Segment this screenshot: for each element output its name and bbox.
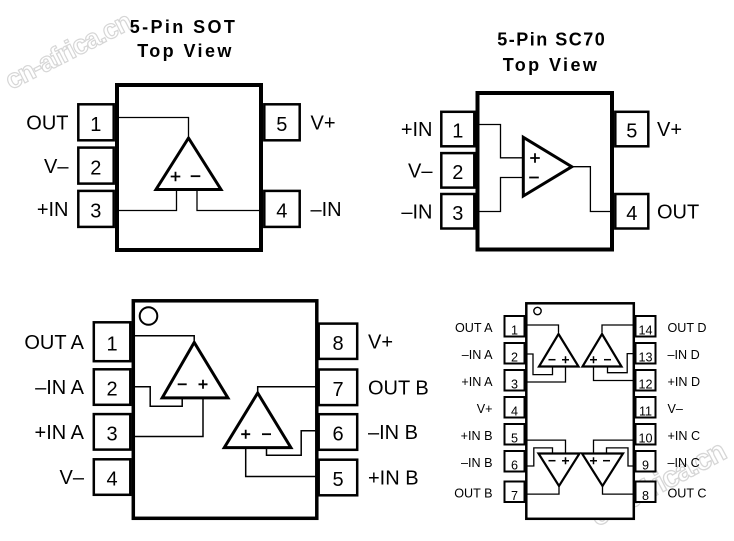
wire pin14 to op-amp D apex (14-pin): [602, 325, 634, 333]
pin 1 number (8-pin): [106, 333, 117, 355]
label +IN pin3 (SOT): [37, 199, 69, 221]
svg-text:OUT: OUT: [657, 201, 699, 223]
pin 5 box (14-pin): [505, 424, 525, 445]
svg-text:OUT B: OUT B: [368, 378, 429, 400]
op-amp B triangle (14-pin): [539, 454, 580, 487]
wire pin1 to plus input (SC70): [478, 125, 524, 158]
pin 7 number (14-pin): [511, 489, 518, 503]
wire pin6 to op-amp B minus input (8-pin): [267, 431, 317, 455]
label +IN C pin10 (14-pin): [668, 429, 701, 443]
op-amp A triangle (8-pin): [162, 342, 228, 398]
pin 8 box (8-pin): [319, 324, 358, 359]
pin 5 number (SC70): [626, 121, 637, 143]
plus sign inside op-amp (SC70): [530, 153, 540, 163]
svg-text:–IN B: –IN B: [461, 456, 493, 470]
svg-text:4: 4: [626, 203, 637, 225]
pin-1 indicator circle (14-pin): [534, 307, 541, 314]
pin 8 number (8-pin): [332, 333, 343, 355]
svg-text:14: 14: [638, 323, 652, 337]
pin 9 number (14-pin): [642, 458, 649, 472]
label V- pin2 (SC70): [408, 161, 433, 183]
svg-text:+IN D: +IN D: [668, 375, 701, 389]
pin 3 number (14-pin): [511, 377, 518, 391]
plus sign op-amp B (14-pin): [562, 457, 569, 464]
pin-1 indicator circle (8-pin): [140, 307, 158, 325]
label -IN pin3 (SC70): [401, 201, 432, 223]
label V+ pin8 (8-pin): [368, 331, 393, 353]
pin 3 box (8-pin): [94, 414, 131, 450]
minus sign op-amp D (14-pin): [604, 359, 611, 361]
wire pin3 to op-amp A plus input (8-pin): [133, 398, 203, 437]
pin 1 box (SC70): [441, 112, 474, 147]
pin 2 box (SOT): [78, 148, 113, 184]
pin 4 number (SOT): [276, 201, 287, 223]
svg-text:OUT B: OUT B: [454, 487, 492, 501]
minus sign inside op-amp (SC70): [529, 177, 539, 179]
svg-text:+IN A: +IN A: [461, 375, 493, 389]
pin 14 box (14-pin): [636, 316, 656, 337]
pin 2 number (SOT): [90, 157, 101, 179]
wire pin6 to op-amp B minus input (14-pin): [526, 448, 552, 466]
svg-text:13: 13: [638, 350, 652, 364]
wire pin1 to op-amp apex (SOT): [117, 118, 189, 137]
wire pin5 to op-amp B plus input (8-pin): [246, 448, 317, 477]
title 5-Pin SC70: [497, 30, 606, 76]
pin 2 number (SC70): [452, 162, 463, 184]
label OUT A pin1 (8-pin): [24, 332, 84, 354]
pin 6 box (8-pin): [319, 414, 358, 450]
svg-text:OUT: OUT: [26, 113, 68, 135]
svg-text:3: 3: [106, 424, 117, 446]
pin 7 box (8-pin): [319, 370, 358, 406]
pin 2 number (14-pin): [511, 350, 518, 364]
pin 10 number (14-pin): [638, 431, 652, 445]
label +IN B pin5 (8-pin): [368, 468, 419, 490]
svg-text:+IN B: +IN B: [368, 468, 419, 490]
svg-text:–IN: –IN: [311, 199, 342, 221]
label -IN D pin13 (14-pin): [668, 348, 700, 362]
svg-text:5-Pin SOT: 5-Pin SOT: [130, 17, 238, 37]
svg-text:8: 8: [332, 333, 343, 355]
label -IN A pin2 (14-pin): [462, 348, 493, 362]
pin 5 number (SOT): [276, 114, 287, 136]
minus sign op-amp B (8-pin): [262, 433, 271, 435]
svg-text:+IN: +IN: [37, 199, 69, 221]
svg-text:V+: V+: [368, 331, 393, 353]
svg-text:1: 1: [106, 333, 117, 355]
pin 5 box (SOT): [264, 104, 299, 140]
plus sign op-amp C (14-pin): [590, 457, 597, 464]
plus sign inside op-amp (SOT): [171, 172, 181, 182]
svg-text:–IN A: –IN A: [35, 377, 85, 399]
svg-text:3: 3: [511, 377, 518, 391]
label -IN pin4 (SOT): [311, 199, 342, 221]
svg-text:V–: V–: [60, 467, 85, 489]
label OUT B pin7 (14-pin): [454, 487, 492, 501]
pin 12 number (14-pin): [638, 377, 652, 391]
wire pin1 to op-amp A apex (14-pin): [526, 325, 558, 333]
wire pin13 to op-amp D minus input (14-pin): [608, 354, 634, 373]
pin 3 number (SOT): [90, 201, 101, 223]
pin 3 box (14-pin): [505, 370, 525, 391]
pin 4 box (14-pin): [505, 397, 525, 418]
svg-text:3: 3: [90, 201, 101, 223]
label -IN C pin9 (14-pin): [668, 456, 700, 470]
op-amp C triangle (14-pin): [582, 454, 623, 487]
label V+ pin4 (14-pin): [477, 402, 493, 416]
minus sign op-amp C (14-pin): [603, 460, 610, 462]
svg-text:5: 5: [276, 114, 287, 136]
svg-text:4: 4: [511, 404, 518, 418]
op-amp B triangle (8-pin): [224, 393, 291, 448]
pin 7 number (8-pin): [332, 379, 343, 401]
svg-text:OUT D: OUT D: [668, 321, 707, 335]
label OUT C pin8 (14-pin): [668, 487, 707, 501]
minus sign op-amp B (14-pin): [549, 460, 556, 462]
pin 2 box (14-pin): [505, 343, 525, 364]
svg-text:10: 10: [638, 431, 652, 445]
svg-text:2: 2: [511, 350, 518, 364]
wire op-amp B apex to pin7 (8-pin): [258, 387, 317, 393]
pin 9 box (14-pin): [636, 451, 656, 472]
svg-text:2: 2: [452, 162, 463, 184]
svg-text:–IN B: –IN B: [368, 422, 418, 444]
op-amp triangle (SC70): [523, 137, 572, 196]
pin 1 box (SOT): [78, 104, 113, 140]
pin 2 number (8-pin): [106, 379, 117, 401]
pin 4 number (SC70): [626, 203, 637, 225]
svg-text:1: 1: [511, 323, 518, 337]
label OUT pin4 (SC70): [657, 201, 699, 223]
pin 3 box (SOT): [78, 191, 113, 227]
IC body 5-Pin SC70: [478, 93, 613, 250]
pin 1 box (8-pin): [94, 322, 131, 361]
svg-text:+IN C: +IN C: [668, 429, 701, 443]
pin 3 box (SC70): [441, 194, 474, 229]
minus sign op-amp A (14-pin): [549, 359, 556, 361]
label OUT B pin7 (8-pin): [368, 378, 429, 400]
wire pin2 to op-amp A minus input (8-pin): [133, 387, 182, 407]
minus sign op-amp A (8-pin): [178, 383, 187, 385]
minus sign inside op-amp (SOT): [191, 175, 201, 177]
pin 1 number (14-pin): [511, 323, 518, 337]
pin 3 number (SC70): [452, 203, 463, 225]
label +IN B pin5 (14-pin): [461, 429, 493, 443]
label V- pin4 (8-pin): [60, 467, 85, 489]
pin 2 box (8-pin): [94, 369, 131, 405]
svg-text:Top View: Top View: [137, 41, 234, 61]
svg-text:–IN A: –IN A: [462, 348, 493, 362]
label V- pin11 (14-pin): [668, 402, 683, 416]
wire pin10 to op-amp C plus input (14-pin): [594, 440, 634, 453]
svg-text:OUT C: OUT C: [668, 487, 707, 501]
svg-text:9: 9: [642, 458, 649, 472]
wire pin3 to op-amp A plus input (14-pin): [526, 367, 565, 383]
wire pin1 to op-amp A apex (8-pin): [133, 336, 194, 341]
pin 14 number (14-pin): [638, 323, 652, 337]
label V+ pin5 (SOT): [311, 113, 336, 135]
svg-text:V–: V–: [44, 156, 69, 178]
pin 1 box (14-pin): [505, 316, 525, 337]
wire op-amp C apex to pin8 (14-pin): [603, 486, 634, 494]
svg-text:2: 2: [106, 379, 117, 401]
wire pin2 to op-amp A minus input (14-pin): [526, 354, 552, 375]
label OUT A pin1 (14-pin): [455, 321, 493, 335]
wire pin12 to op-amp D plus input (14-pin): [594, 367, 634, 381]
svg-text:+IN B: +IN B: [461, 429, 493, 443]
label +IN A pin3 (14-pin): [461, 375, 493, 389]
pin 8 number (14-pin): [642, 489, 649, 503]
svg-text:Top View: Top View: [503, 55, 600, 75]
pin 4 number (8-pin): [106, 469, 117, 491]
svg-text:5: 5: [332, 469, 343, 491]
pin 5 box (8-pin): [319, 460, 358, 496]
pin 8 box (14-pin): [636, 482, 656, 503]
svg-text:12: 12: [638, 377, 652, 391]
pin 4 box (SOT): [264, 191, 299, 227]
svg-text:+IN A: +IN A: [35, 422, 85, 444]
wire pin9 to op-amp C minus input (14-pin): [607, 448, 634, 466]
label +IN A pin3 (8-pin): [35, 422, 85, 444]
pin 3 number (8-pin): [106, 424, 117, 446]
svg-text:6: 6: [332, 424, 343, 446]
svg-text:7: 7: [332, 379, 343, 401]
pin 13 number (14-pin): [638, 350, 652, 364]
svg-text:1: 1: [90, 114, 101, 136]
pin 6 number (8-pin): [332, 424, 343, 446]
svg-text:3: 3: [452, 203, 463, 225]
pin 5 box (SC70): [615, 112, 648, 147]
wire minus input to pin4 (SOT): [197, 190, 261, 211]
svg-text:–IN C: –IN C: [668, 456, 700, 470]
svg-text:–IN: –IN: [401, 201, 432, 223]
pin 5 number (14-pin): [511, 431, 518, 445]
wire op-amp output to pin4 (SC70): [572, 167, 614, 212]
pin 2 box (SC70): [441, 153, 474, 188]
svg-text:OUT A: OUT A: [24, 332, 84, 354]
svg-text:1: 1: [452, 121, 463, 143]
svg-text:OUT A: OUT A: [455, 321, 493, 335]
svg-text:V–: V–: [668, 402, 683, 416]
title 5-Pin SOT: [130, 17, 238, 61]
label -IN B pin6 (14-pin): [461, 456, 493, 470]
wire pin3 to plus input (SOT): [117, 190, 177, 211]
op-amp D triangle (14-pin): [583, 334, 622, 367]
label +IN pin1 (SC70): [401, 119, 433, 141]
label V+ pin5 (SC70): [657, 119, 682, 141]
pin 4 box (8-pin): [94, 459, 131, 495]
svg-text:5: 5: [626, 121, 637, 143]
svg-text:7: 7: [511, 489, 518, 503]
plus sign op-amp B (8-pin): [241, 430, 250, 439]
svg-text:V+: V+: [477, 402, 493, 416]
watermark top-left "cn-africa.cn": [0, 6, 136, 95]
IC body quad op-amp 14-pin: [526, 303, 634, 519]
pin 10 box (14-pin): [636, 424, 656, 445]
label OUT D pin14 (14-pin): [668, 321, 707, 335]
svg-text:6: 6: [511, 458, 518, 472]
svg-text:V–: V–: [408, 161, 433, 183]
label -IN A pin2 (8-pin): [35, 377, 85, 399]
svg-text:V+: V+: [657, 119, 682, 141]
pin 1 number (SOT): [90, 114, 101, 136]
op-amp A triangle (14-pin): [539, 334, 579, 367]
svg-text:11: 11: [639, 404, 652, 418]
wire pin3 to minus input (SC70): [478, 178, 524, 212]
pin 4 number (14-pin): [511, 404, 518, 418]
pin 1 number (SC70): [452, 121, 463, 143]
watermark bottom-right "cn-africa.cn": [585, 435, 731, 534]
pin 4 box (SC70): [615, 194, 648, 229]
svg-text:8: 8: [642, 489, 649, 503]
svg-text:+IN: +IN: [401, 119, 433, 141]
label +IN D pin12 (14-pin): [668, 375, 701, 389]
plus sign op-amp A (8-pin): [199, 380, 208, 389]
wire op-amp B apex to pin7 (14-pin): [526, 486, 559, 494]
IC body dual op-amp 8-pin: [133, 301, 316, 519]
svg-text:–IN D: –IN D: [668, 348, 700, 362]
pin 6 box (14-pin): [505, 451, 525, 472]
pin 11 number (14-pin): [639, 404, 652, 418]
svg-text:4: 4: [106, 469, 117, 491]
pin 11 box (14-pin): [636, 397, 656, 418]
plus sign op-amp D (14-pin): [590, 356, 597, 363]
IC body 5-Pin SOT: [117, 85, 261, 250]
op-amp triangle (SOT): [156, 138, 221, 190]
label V- pin2 (SOT): [44, 156, 69, 178]
wire pin5 to op-amp B plus input (14-pin): [526, 440, 565, 453]
label -IN B pin6 (8-pin): [368, 422, 418, 444]
svg-text:V+: V+: [311, 113, 336, 135]
pin 7 box (14-pin): [505, 482, 525, 503]
pin 5 number (8-pin): [332, 469, 343, 491]
svg-text:2: 2: [90, 157, 101, 179]
pin 12 box (14-pin): [636, 370, 656, 391]
label OUT pin1 (SOT): [26, 113, 68, 135]
pin 13 box (14-pin): [636, 343, 656, 364]
svg-text:4: 4: [276, 201, 287, 223]
svg-text:5-Pin SC70: 5-Pin SC70: [497, 30, 606, 50]
plus sign op-amp A (14-pin): [562, 356, 569, 363]
svg-text:5: 5: [511, 431, 518, 445]
pin 6 number (14-pin): [511, 458, 518, 472]
